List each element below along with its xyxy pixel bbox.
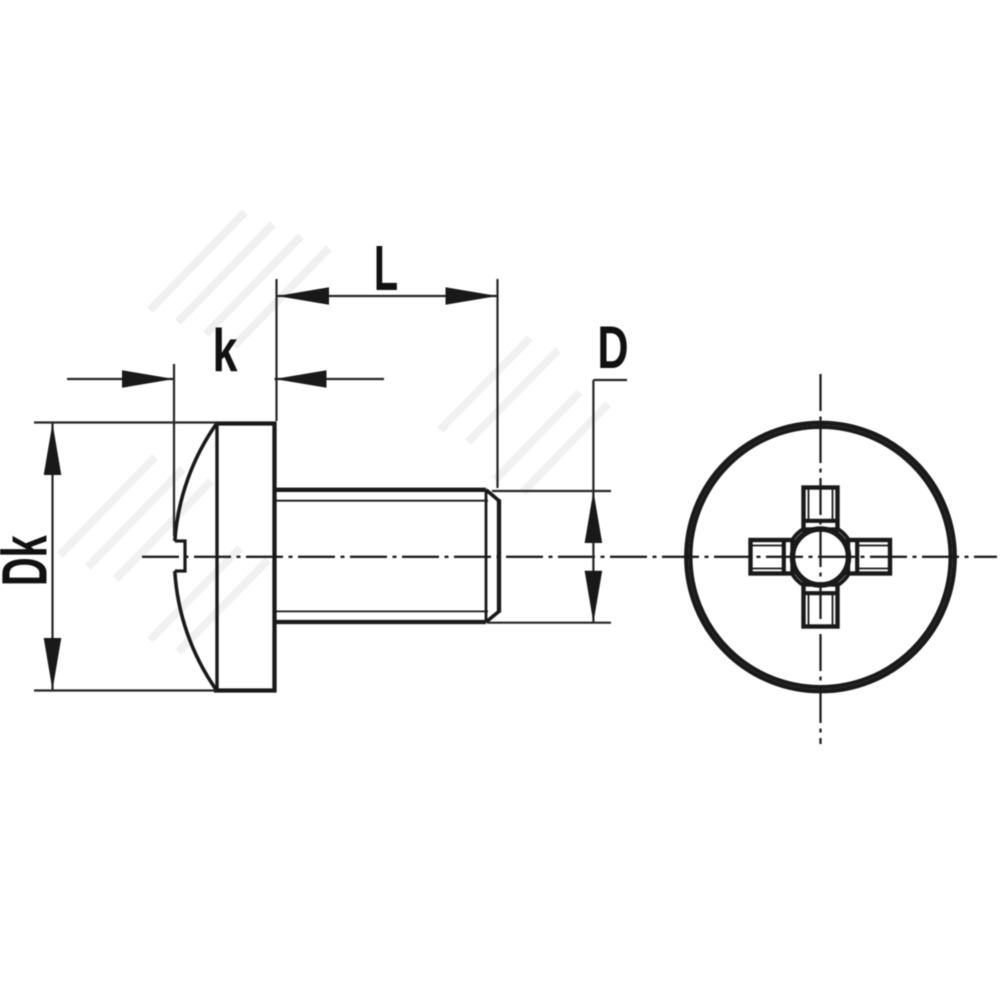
Dk arrow up — [44, 423, 62, 475]
svg-text:L: L — [374, 234, 398, 305]
D arrow up — [585, 491, 603, 543]
D arrow down — [585, 571, 603, 623]
watermark hatch patch 3 — [60, 457, 268, 652]
L extension line left — [275, 279, 277, 421]
slot notch in dome profile — [175, 541, 185, 571]
thread minor top — [277, 500, 489, 502]
Dk dimension line — [51, 423, 53, 690]
k arrow (points left at head face) — [275, 370, 327, 388]
L extension line right — [496, 279, 498, 488]
chamfer top diagonal — [486, 490, 499, 501]
head dome arc lower — [175, 571, 216, 690]
dimension D — [487, 380, 627, 623]
shank end face — [497, 500, 501, 613]
k dimension line right tail — [275, 378, 385, 380]
recess central circle — [793, 529, 849, 585]
head bottom edge — [214, 688, 277, 692]
wing bottom — [804, 585, 838, 627]
recess chamfer arc NW — [792, 529, 803, 540]
k arrow (points right at head apex) — [122, 370, 174, 388]
D leader vertical — [592, 380, 594, 622]
wing left — [751, 540, 793, 574]
svg-text:Dk: Dk — [0, 535, 61, 586]
L arrow left — [277, 287, 329, 305]
thread major bottom — [277, 620, 487, 624]
thread major top — [277, 488, 487, 492]
watermark hatch patch 1 — [150, 212, 329, 346]
head side view — [175, 422, 277, 693]
recess chamfer arc NE — [838, 529, 849, 540]
wing top inner chamfer lines — [809, 490, 833, 521]
Dk extension line bottom — [34, 689, 216, 691]
head dome tangent line — [215, 424, 218, 690]
wing top cross line — [804, 519, 838, 523]
recess chamfer arc SE — [838, 574, 849, 585]
dimension k — [67, 364, 384, 536]
L arrow right — [446, 287, 498, 305]
D leader horizontal bar — [593, 379, 627, 381]
watermark hatch patch 2 — [440, 338, 608, 492]
head dome arc upper — [175, 423, 217, 541]
svg-text:D: D — [597, 315, 628, 382]
recess chamfer arc SW — [792, 574, 803, 585]
wing right inner chamfer lines — [858, 546, 889, 569]
shank (threaded) — [277, 490, 500, 622]
wing bottom cross line — [804, 591, 838, 595]
head right face — [272, 422, 276, 693]
head top edge — [216, 421, 277, 425]
wing right — [848, 540, 890, 574]
D extension line bottom — [487, 622, 611, 624]
wing bottom inner chamfer lines — [809, 594, 833, 625]
Dk arrow down — [44, 638, 62, 690]
front view inner circle (dome tangent) — [691, 427, 951, 687]
wing top — [804, 488, 838, 530]
thread minor bottom — [277, 610, 489, 612]
L dimension line — [277, 295, 497, 297]
chamfer start line — [485, 490, 488, 622]
chamfer bottom diagonal — [486, 611, 499, 622]
dimension Dk — [34, 423, 218, 691]
wing left cross line — [782, 540, 786, 574]
dimension L — [277, 279, 498, 488]
D extension line top — [492, 490, 611, 492]
k extension line left — [173, 364, 175, 536]
wing right cross line — [855, 540, 859, 574]
phillips recess — [751, 488, 891, 627]
centerline vertical (front view) — [819, 374, 821, 744]
Dk extension line top — [34, 421, 218, 423]
svg-text:k: k — [212, 318, 237, 385]
centerline horizontal (screw axis) — [142, 556, 997, 558]
wing left inner chamfer lines — [753, 546, 784, 569]
k dimension line left tail — [67, 378, 174, 380]
front view outer circle (head diameter) — [686, 423, 954, 691]
